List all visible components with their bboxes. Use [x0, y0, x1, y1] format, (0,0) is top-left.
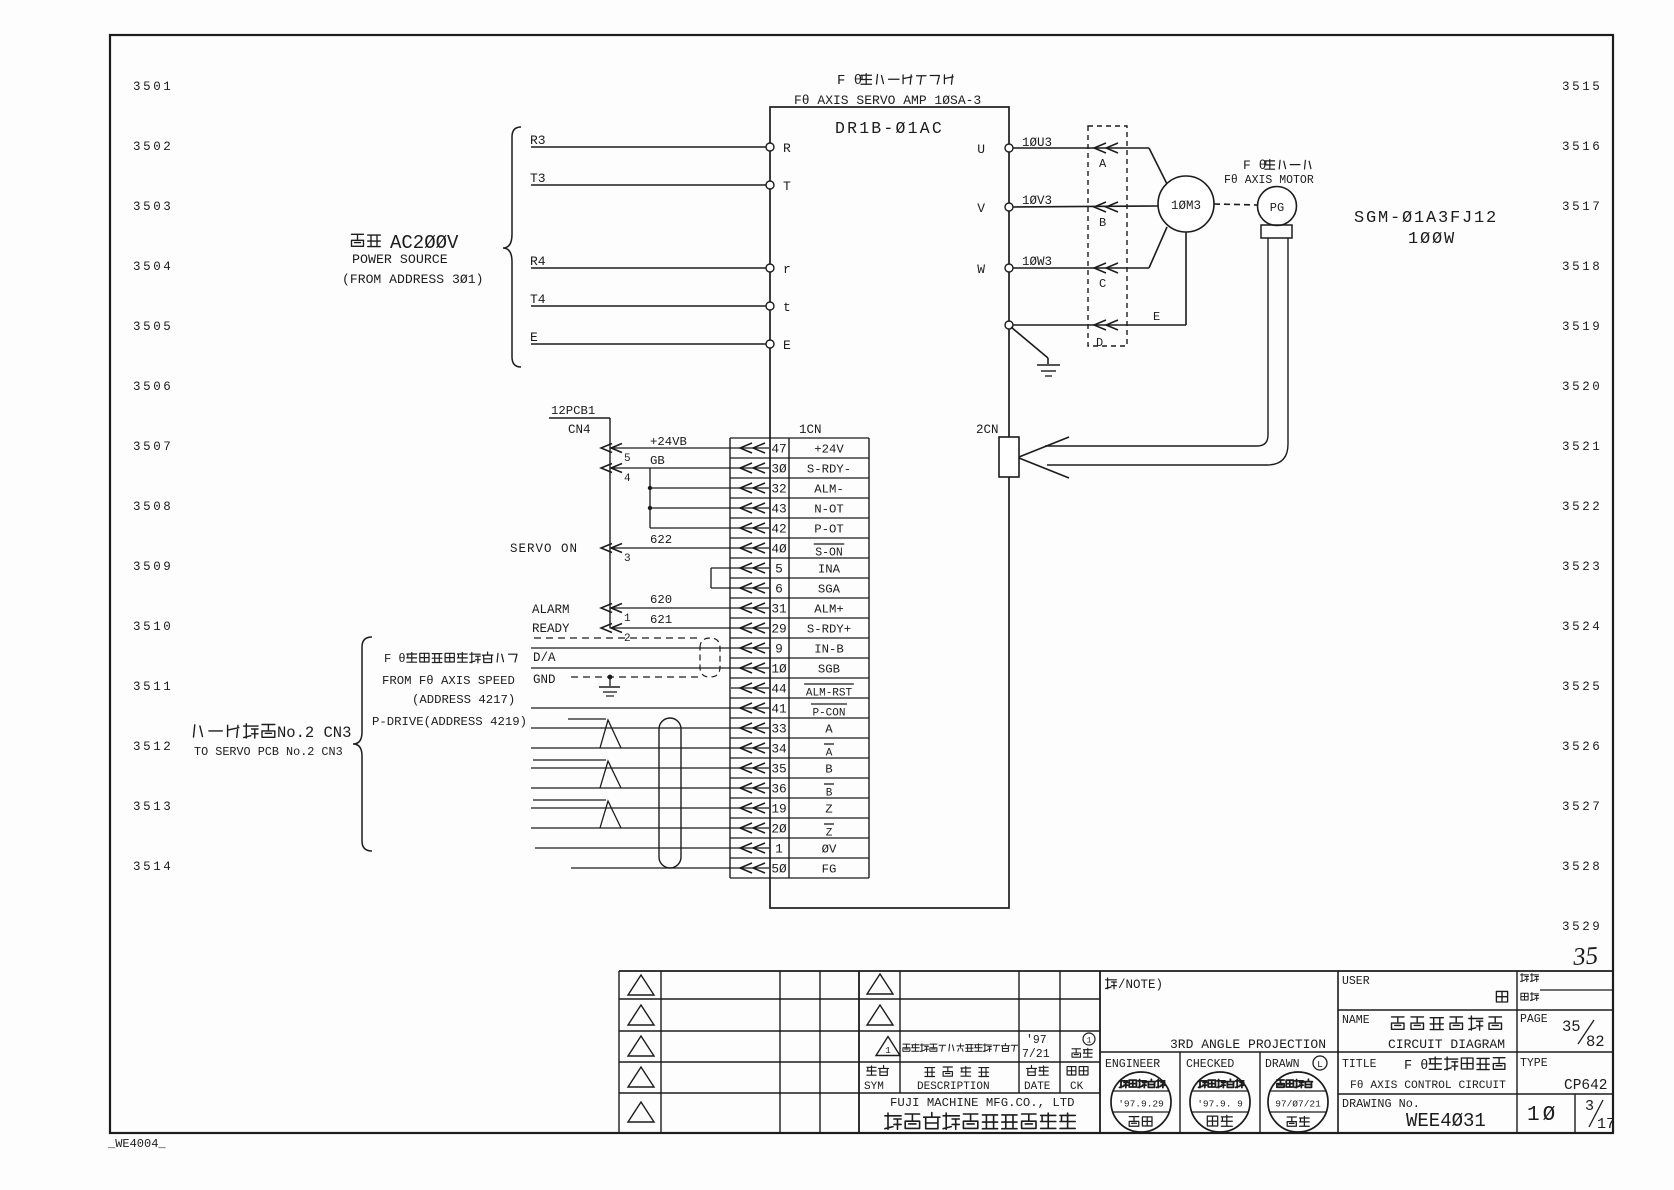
page cell 35/82: [1520, 1013, 1605, 1051]
svg-text:3522: 3522: [1562, 500, 1602, 514]
pin 47 +24V arrow: [731, 443, 769, 453]
signal name IN-B: [814, 643, 844, 657]
svg-text:3Ø: 3Ø: [771, 462, 787, 477]
terminal r of U1: [766, 262, 791, 277]
svg-text:CK: CK: [1070, 1081, 1084, 1093]
pin 20 Z arrow: [731, 823, 769, 833]
svg-text:A: A: [826, 748, 833, 760]
svg-text:31: 31: [771, 602, 787, 617]
svg-text:19: 19: [771, 802, 786, 817]
pin 44 ALM-RST arrow: [731, 683, 769, 693]
svg-text:36: 36: [771, 782, 786, 797]
label power source AC200V (japanese): [352, 232, 460, 254]
svg-text:97/Ø7/21: 97/Ø7/21: [1275, 1099, 1321, 1110]
svg-text:5: 5: [624, 453, 631, 465]
svg-text:DR1B-Ø1AC: DR1B-Ø1AC: [835, 119, 944, 138]
svg-text:_WE4004_: _WE4004_: [107, 1137, 166, 1151]
encoder cable: [1019, 238, 1288, 478]
svg-text:TYPE: TYPE: [1520, 1057, 1548, 1070]
terminal R of U1: [766, 141, 791, 156]
signal name N-OT: [814, 503, 844, 517]
user cell: [1342, 974, 1539, 1003]
pin 35 B arrow: [731, 763, 769, 773]
svg-text:3512: 3512: [133, 740, 173, 754]
svg-text:82: 82: [1586, 1033, 1605, 1051]
sheet number cells: [1527, 1098, 1615, 1133]
svg-text:A: A: [825, 723, 833, 737]
connector 12PCB1 CN4 label: [549, 404, 610, 437]
CN4 pin 5 wire +24VB: [601, 435, 731, 465]
wire to pin 36: [531, 787, 731, 789]
svg-text:33: 33: [771, 722, 786, 737]
signal name ØV: [822, 843, 837, 857]
svg-text:1: 1: [885, 1045, 891, 1056]
signal name A: [825, 723, 833, 737]
svg-text:FROM Fθ AXIS SPEED: FROM Fθ AXIS SPEED: [382, 674, 515, 688]
revision triangles right table: [867, 974, 893, 1025]
svg-text:r: r: [783, 262, 791, 277]
svg-text:2: 2: [624, 633, 631, 645]
svg-text:3508: 3508: [133, 500, 173, 514]
wire T3 to terminal T: [530, 171, 766, 186]
pin 6 SGA arrow: [731, 583, 769, 593]
handwritten page number 35: [1571, 942, 1599, 971]
wire to pin 35: [531, 767, 731, 769]
svg-text:3528: 3528: [1562, 860, 1602, 874]
terminal T of U1: [766, 179, 791, 194]
svg-text:WEE4Ø31: WEE4Ø31: [1406, 1110, 1486, 1132]
signal name Z: [824, 824, 834, 840]
signal name S-RDY+: [807, 623, 851, 637]
title cell F axis control circuit: [1342, 1057, 1506, 1092]
pin 5 INA arrow: [731, 563, 769, 573]
svg-text:D/A: D/A: [533, 651, 556, 665]
wire to pin 50: [571, 867, 731, 869]
wire to pin 20: [531, 827, 731, 829]
CN4 pin 4 wire GB: [601, 454, 731, 485]
pin 1 ØV arrow: [731, 843, 769, 853]
svg-text:INA: INA: [818, 563, 841, 577]
right line numbers 3515-3529: [1562, 80, 1602, 934]
svg-text:47: 47: [771, 442, 786, 457]
svg-text:35: 35: [1562, 1018, 1581, 1036]
pin 43 N-OT arrow: [731, 503, 769, 513]
svg-text:5Ø: 5Ø: [771, 862, 787, 877]
svg-text:1ØV3: 1ØV3: [1022, 194, 1052, 208]
svg-text:3514: 3514: [133, 860, 173, 874]
svg-text:1ØM3: 1ØM3: [1171, 199, 1201, 213]
svg-text:P-CON: P-CON: [812, 708, 845, 720]
svg-text:32: 32: [771, 482, 786, 497]
svg-text:34: 34: [771, 742, 787, 757]
label F-theta axis motor (japanese): [1243, 158, 1311, 173]
svg-text:4Ø: 4Ø: [771, 542, 787, 557]
wire 10U3: [1013, 136, 1167, 184]
svg-text:FG: FG: [822, 863, 837, 877]
svg-text:621: 621: [650, 613, 672, 627]
svg-text:PG: PG: [1270, 201, 1284, 215]
svg-text:FUJI MACHINE MFG.CO., LTD: FUJI MACHINE MFG.CO., LTD: [890, 1096, 1074, 1110]
svg-text:SGA: SGA: [818, 583, 841, 597]
svg-text:41: 41: [771, 702, 787, 717]
wire to pin 1: [535, 847, 731, 849]
svg-text:B: B: [826, 788, 833, 800]
svg-text:B: B: [1099, 216, 1106, 230]
wire 10W3: [1013, 227, 1167, 269]
signal name SGB: [818, 663, 840, 677]
svg-text:1: 1: [624, 613, 631, 625]
svg-text:3510: 3510: [133, 620, 173, 634]
wire R4 to terminal r: [530, 254, 766, 269]
ground symbol at amp output: [1011, 327, 1060, 376]
svg-text:620: 620: [650, 593, 672, 607]
svg-text:3523: 3523: [1562, 560, 1602, 574]
twisted pair symbol: [568, 719, 621, 748]
svg-text:3: 3: [1585, 1098, 1594, 1115]
svg-text:3516: 3516: [1562, 140, 1602, 154]
svg-text:t: t: [783, 300, 791, 315]
label F-theta axis servo amp (japanese): [837, 73, 953, 89]
svg-text:3505: 3505: [133, 320, 173, 334]
svg-text:3504: 3504: [133, 260, 173, 274]
svg-text:7/21: 7/21: [1022, 1048, 1050, 1061]
svg-text:35: 35: [771, 762, 786, 777]
pin 50 FG arrow: [731, 863, 769, 873]
svg-text:C: C: [1099, 277, 1106, 291]
signal name +24V: [814, 443, 844, 457]
dashed shaft link 10M3-PG: [1214, 204, 1257, 205]
type cell CP642: [1520, 1057, 1608, 1094]
motor type label SGM-01A3FJ12 100W: [1354, 209, 1498, 249]
svg-text:3526: 3526: [1562, 740, 1602, 754]
company name FUJI MACHINE: [885, 1096, 1075, 1129]
svg-text:R4: R4: [530, 254, 546, 269]
revision 1 entry: [876, 1033, 1095, 1061]
signal name S-RDY-: [807, 463, 851, 477]
wire E to terminal E: [530, 330, 766, 345]
twisted pair symbol: [533, 760, 621, 788]
svg-text:3503: 3503: [133, 200, 173, 214]
svg-text:/NOTE): /NOTE): [1118, 978, 1163, 992]
pin 9 IN-B arrow: [731, 643, 769, 653]
svg-text:3RD ANGLE PROJECTION: 3RD ANGLE PROJECTION: [1170, 1037, 1326, 1052]
pin 42 P-OT arrow: [731, 523, 769, 533]
signal name S-ON: [814, 544, 845, 560]
wire D/A to pin 9: [531, 647, 731, 649]
motor connector dashed box: [1088, 126, 1127, 346]
wire to pin 19: [531, 807, 731, 809]
approval headers: [1105, 1056, 1327, 1071]
svg-text:ALM-: ALM-: [814, 483, 844, 497]
connector pin B: [1094, 202, 1118, 230]
svg-text:12PCB1: 12PCB1: [551, 404, 595, 418]
svg-text:3502: 3502: [133, 140, 173, 154]
revision triangles left table: [628, 975, 654, 1122]
svg-text:3513: 3513: [133, 800, 173, 814]
drawing number WEE4031: [1342, 1097, 1486, 1132]
signal name B: [824, 784, 834, 800]
svg-text:3506: 3506: [133, 380, 173, 394]
signal name Z: [825, 803, 832, 817]
svg-text:1Ø: 1Ø: [771, 662, 787, 677]
svg-text:17: 17: [1597, 1116, 1615, 1133]
svg-text:+24VB: +24VB: [650, 435, 687, 449]
svg-text:3507: 3507: [133, 440, 173, 454]
svg-text:W: W: [977, 262, 985, 277]
pin 34 A arrow: [731, 743, 769, 753]
brace power source group: [503, 127, 521, 367]
svg-text:F θ: F θ: [1404, 1059, 1428, 1074]
pin 36 B arrow: [731, 783, 769, 793]
svg-text:F θ: F θ: [384, 652, 406, 666]
svg-text:3525: 3525: [1562, 680, 1602, 694]
svg-text:SGM-Ø1A3FJ12: SGM-Ø1A3FJ12: [1354, 209, 1498, 228]
wire P-DRIVE to pin 41: [531, 707, 731, 709]
signal name FG: [822, 863, 837, 877]
svg-text:B: B: [825, 763, 832, 777]
note box: [1106, 978, 1326, 1052]
svg-text:2Ø: 2Ø: [771, 822, 787, 837]
CN4 pin 3 wire 622: [601, 533, 731, 565]
svg-text:T: T: [783, 179, 791, 194]
svg-text:DATE: DATE: [1024, 1081, 1051, 1093]
svg-text:S-RDY+: S-RDY+: [807, 623, 851, 637]
svg-text:D: D: [1096, 336, 1103, 350]
pin 33 A arrow: [731, 723, 769, 733]
signal name INA: [818, 563, 841, 577]
svg-text:A: A: [1099, 157, 1107, 171]
svg-text:5: 5: [775, 562, 783, 577]
pin 40 S-ON arrow: [731, 543, 769, 553]
cable shield oval: [659, 718, 681, 868]
terminal V of U1: [977, 201, 1013, 216]
ground symbol GND: [599, 675, 620, 696]
signal name SGA: [818, 583, 841, 597]
brace servo pcb group: [353, 637, 372, 851]
svg-text:S-RDY-: S-RDY-: [807, 463, 851, 477]
svg-text:1: 1: [1087, 1037, 1092, 1046]
svg-text:29: 29: [771, 622, 786, 637]
svg-text:NAME: NAME: [1342, 1014, 1370, 1027]
svg-text:3527: 3527: [1562, 800, 1602, 814]
connector pin C: [1094, 263, 1118, 291]
connector pin D: [1094, 320, 1118, 350]
svg-text:DESCRIPTION: DESCRIPTION: [917, 1081, 990, 1093]
svg-text:POWER SOURCE: POWER SOURCE: [352, 252, 448, 267]
wire to pin 33: [531, 727, 731, 729]
svg-text:T3: T3: [530, 171, 546, 186]
svg-text:GB: GB: [650, 454, 665, 468]
svg-text:No.2 CN3: No.2 CN3: [277, 724, 351, 742]
svg-text:V: V: [977, 201, 985, 216]
svg-text:622: 622: [650, 533, 672, 547]
shield loop at 1CN: [700, 638, 720, 677]
svg-text:SYM: SYM: [864, 1081, 884, 1093]
signal name ALM+: [814, 603, 844, 617]
wire T4 to terminal t: [530, 292, 766, 307]
svg-text:43: 43: [771, 502, 786, 517]
svg-text:CIRCUIT DIAGRAM: CIRCUIT DIAGRAM: [1388, 1037, 1505, 1052]
wire GND dashed: [571, 676, 700, 678]
svg-text:USER: USER: [1342, 975, 1370, 988]
svg-text:E: E: [530, 330, 538, 345]
pin 29 S-RDY+ arrow: [731, 623, 769, 633]
PG flange: [1261, 225, 1292, 238]
svg-text:SERVO ON: SERVO ON: [510, 542, 578, 556]
shield wire dashed (D/A pair): [534, 637, 700, 639]
svg-text:N-OT: N-OT: [814, 503, 844, 517]
svg-text:1CN: 1CN: [799, 423, 822, 437]
svg-text:4: 4: [624, 473, 631, 485]
svg-text:1Ø: 1Ø: [1527, 1104, 1558, 1127]
svg-text:3509: 3509: [133, 560, 173, 574]
svg-text:'97.9. 9: '97.9. 9: [1197, 1099, 1243, 1110]
svg-text:(ADDRESS 4217): (ADDRESS 4217): [412, 693, 515, 707]
svg-text:DRAWING No.: DRAWING No.: [1342, 1097, 1420, 1111]
wire to pin 34: [531, 747, 731, 749]
svg-text:F θ: F θ: [837, 73, 862, 89]
svg-text:Fθ AXIS MOTOR: Fθ AXIS MOTOR: [1224, 174, 1314, 187]
svg-text:READY: READY: [532, 622, 570, 636]
svg-text:1ØW3: 1ØW3: [1022, 255, 1052, 269]
svg-text:AC2ØØV: AC2ØØV: [390, 232, 459, 254]
svg-text:CHECKED: CHECKED: [1186, 1058, 1234, 1071]
CN4 bus wire: [609, 418, 611, 628]
wire branch ALM- N-OT P-OT: [648, 468, 731, 528]
svg-text:R: R: [783, 141, 791, 156]
svg-text:3518: 3518: [1562, 260, 1602, 274]
title block grid: [619, 971, 1613, 1133]
svg-text:ØV: ØV: [822, 843, 837, 857]
svg-text:Z: Z: [826, 828, 833, 840]
svg-text:'97: '97: [1026, 1034, 1047, 1047]
svg-text:F θ: F θ: [1243, 158, 1266, 173]
pin 10 SGB arrow: [731, 663, 769, 673]
svg-text:3517: 3517: [1562, 200, 1602, 214]
svg-text:Fθ AXIS SERVO AMP 1ØSA-3: Fθ AXIS SERVO AMP 1ØSA-3: [794, 93, 981, 108]
signal name ALM-RST: [804, 684, 854, 700]
svg-text:GND: GND: [533, 673, 556, 687]
signal name P-OT: [814, 523, 844, 537]
svg-text:ALM-RST: ALM-RST: [806, 688, 853, 700]
svg-text:3524: 3524: [1562, 620, 1602, 634]
left line numbers 3501-3514: [133, 80, 173, 874]
label servo pcb No.2 CN3 (japanese): [194, 724, 352, 742]
svg-text:TITLE: TITLE: [1342, 1058, 1377, 1071]
svg-text:2CN: 2CN: [976, 423, 999, 437]
svg-text:Fθ AXIS CONTROL CIRCUIT: Fθ AXIS CONTROL CIRCUIT: [1350, 1080, 1506, 1092]
svg-text:DRAWN: DRAWN: [1265, 1058, 1300, 1071]
terminal W of U1: [977, 262, 1013, 277]
svg-text:3519: 3519: [1562, 320, 1602, 334]
svg-text:ALARM: ALARM: [532, 603, 570, 617]
signal name B: [825, 763, 832, 777]
svg-text:1: 1: [775, 842, 783, 857]
svg-text:L: L: [1317, 1059, 1323, 1070]
svg-text:1ØU3: 1ØU3: [1022, 136, 1052, 150]
svg-text:IN-B: IN-B: [814, 643, 844, 657]
svg-text:35: 35: [1571, 942, 1599, 971]
svg-text:E: E: [783, 338, 791, 353]
svg-text:3501: 3501: [133, 80, 173, 94]
svg-text:T4: T4: [530, 292, 546, 307]
stamp CHECKED: [1190, 1072, 1250, 1132]
svg-text:E: E: [1153, 310, 1160, 324]
svg-text:3515: 3515: [1562, 80, 1602, 94]
svg-text:CP642: CP642: [1564, 1078, 1608, 1094]
svg-text:U: U: [977, 142, 985, 157]
svg-text:44: 44: [771, 682, 787, 697]
terminal E of U1: [766, 338, 791, 353]
svg-text:ALM+: ALM+: [814, 603, 844, 617]
svg-text:3520: 3520: [1562, 380, 1602, 394]
svg-text:'97.9.29: '97.9.29: [1118, 1099, 1164, 1110]
svg-text:42: 42: [771, 522, 786, 537]
CN4 pin 1 wire 620: [601, 593, 731, 625]
svg-text:S-ON: S-ON: [815, 547, 843, 560]
motor 10M3: [1158, 176, 1214, 232]
terminal U of U1: [977, 142, 1013, 157]
pin 32 ALM- arrow: [731, 483, 769, 493]
name cell circuit diagram: [1342, 1014, 1505, 1052]
terminal E-ground of U1: [1005, 321, 1013, 329]
svg-text:TO SERVO PCB No.2 CN3: TO SERVO PCB No.2 CN3: [194, 745, 343, 759]
connector pin A: [1094, 143, 1118, 171]
svg-text:(FROM ADDRESS 3Ø1): (FROM ADDRESS 3Ø1): [342, 272, 483, 287]
connector 2CN: [976, 423, 1019, 477]
wire 10V3: [1013, 194, 1159, 208]
svg-text:PAGE: PAGE: [1520, 1013, 1548, 1026]
pin 41 P-CON arrow: [731, 703, 769, 713]
svg-text:CN4: CN4: [568, 423, 591, 437]
signal name ALM-: [814, 483, 844, 497]
svg-text:ENGINEER: ENGINEER: [1105, 1058, 1160, 1071]
svg-text:SGB: SGB: [818, 663, 840, 677]
svg-text:3511: 3511: [133, 680, 173, 694]
svg-text:1ØØW: 1ØØW: [1408, 230, 1456, 249]
svg-text:3529: 3529: [1562, 920, 1602, 934]
pin 30 S-RDY- arrow: [731, 463, 769, 473]
signal name P-CON: [811, 704, 847, 720]
pin 19 Z arrow: [731, 803, 769, 813]
connector 1CN table grid: [730, 438, 869, 878]
stamp ENGINEER: [1111, 1072, 1171, 1132]
revision table header: [864, 1066, 1088, 1094]
encoder PG: [1258, 187, 1297, 226]
svg-text:R3: R3: [530, 133, 546, 148]
wire R3 to terminal R: [530, 133, 766, 148]
svg-text:9: 9: [775, 642, 783, 657]
svg-text:P-DRIVE(ADDRESS 4219): P-DRIVE(ADDRESS 4219): [372, 715, 527, 729]
wire to pin 10 SGB: [531, 667, 731, 669]
twisted pair symbol: [533, 800, 621, 828]
signal name A: [824, 744, 834, 760]
terminal t of U1: [766, 300, 791, 315]
svg-text:Z: Z: [825, 803, 832, 817]
svg-text:P-OT: P-OT: [814, 523, 844, 537]
wire E to motor: [1013, 232, 1186, 325]
pin 31 ALM+ arrow: [731, 603, 769, 613]
svg-text:3521: 3521: [1562, 440, 1602, 454]
servo amp U1 DR1B-01AC outline: [770, 107, 1009, 908]
jumper pins 5-6 INA SGA: [711, 568, 731, 588]
label F-theta axis speed output (japanese): [384, 652, 517, 666]
CN4 pin 2 wire 621: [601, 613, 731, 645]
svg-text:3: 3: [624, 553, 631, 565]
svg-text:+24V: +24V: [814, 443, 844, 457]
stamp DRAWN: [1268, 1072, 1328, 1132]
svg-text:6: 6: [775, 582, 783, 597]
